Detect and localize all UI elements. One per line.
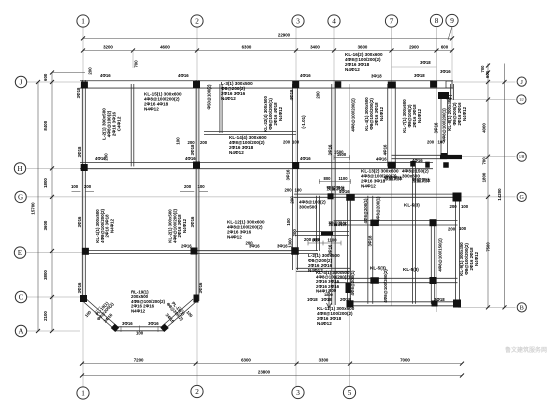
svg-text:200: 200 [292, 229, 297, 237]
column 1/E [82, 248, 89, 255]
svg-text:600: 600 [441, 45, 449, 50]
svg-text:200: 200 [290, 196, 295, 204]
beam on axis 4 [332, 84, 335, 305]
column 3/E [291, 247, 299, 255]
svg-text:100: 100 [295, 188, 303, 193]
column x433 lower [430, 277, 437, 284]
beam KL on axis H [80, 163, 433, 169]
svg-text:200: 200 [283, 140, 291, 145]
grid line axis 9 vertical [451, 28, 453, 101]
svg-text:6300: 6300 [242, 45, 252, 50]
grid line axis 1/H horizontal [447, 156, 516, 158]
axis bubble J left [15, 76, 26, 87]
svg-text:700: 700 [482, 157, 487, 165]
column 1/J [81, 82, 88, 89]
axis bubble 8 top [430, 14, 442, 26]
column 4/J [335, 81, 342, 88]
rebar rotated 4Φ18 [289, 89, 294, 100]
grid line axis H horizontal [27, 167, 81, 169]
svg-text:3Φ16: 3Φ16 [286, 169, 291, 180]
svg-text:3Φ18: 3Φ18 [77, 146, 82, 157]
dim 1500 at 1/H [334, 152, 350, 160]
grid line axis B horizontal [458, 306, 516, 308]
stair dim 800/1100 upper [319, 176, 350, 184]
grid line axis 1/J (M) horizontal [446, 99, 516, 101]
beam between 1-2 [131, 84, 134, 166]
column x433 mid [430, 219, 437, 226]
dim 600 right top [485, 70, 490, 78]
svg-text:1800: 1800 [482, 172, 487, 182]
svg-text:100: 100 [136, 331, 144, 336]
column 8/G [453, 193, 462, 202]
svg-text:3Φ16: 3Φ16 [328, 244, 333, 255]
beam label rotated KL-32(4) [263, 96, 283, 132]
axis bubble 5 bottom [343, 386, 355, 398]
bay window bottom beam [115, 327, 165, 331]
svg-text:1Φ18: 1Φ18 [307, 297, 318, 302]
beam stair landing [296, 232, 349, 236]
svg-text:100: 100 [71, 184, 79, 189]
rebar rotated 3Φ16 x334 [328, 144, 333, 155]
rebar rotated 4Φ16 x391 [383, 144, 388, 155]
axis bubble C left [15, 291, 26, 302]
svg-text:100: 100 [198, 184, 206, 189]
svg-text:6300: 6300 [241, 358, 251, 363]
dim 700 right top [480, 65, 485, 73]
grid line axis 5 vertical [349, 84, 351, 387]
svg-text:200: 200 [427, 140, 435, 145]
svg-text:7200: 7200 [134, 358, 144, 363]
svg-text:3Φ18: 3Φ18 [371, 74, 382, 79]
column 8/J [430, 81, 437, 88]
svg-text:200: 200 [448, 227, 456, 232]
column x373 mid [370, 220, 379, 227]
svg-text:J: J [20, 79, 23, 86]
grid line axis A horizontal [27, 330, 81, 332]
dimension left inner [43, 71, 54, 334]
beam on axis 1/H [392, 155, 448, 158]
svg-text:1800: 1800 [43, 178, 48, 188]
beam label rotated KL-4(1) [364, 97, 384, 131]
svg-text:1/J: 1/J [519, 98, 524, 102]
svg-text:3300: 3300 [319, 358, 329, 363]
axis bubble 4 top [328, 15, 340, 27]
svg-text:KL-5(3): KL-5(3) [404, 203, 420, 208]
svg-text:2Φ16: 2Φ16 [181, 244, 192, 249]
stirrup label x350 a [363, 198, 368, 223]
dim rotated 4Φ16 x439 [434, 122, 439, 133]
axis 9 leader [448, 27, 452, 40]
svg-text:7000: 7000 [400, 358, 410, 363]
beam on axis G [294, 194, 460, 197]
beam label rotated KL-1(1) [95, 208, 115, 243]
grid line axis E horizontal [27, 252, 84, 254]
column 7/J [388, 82, 396, 89]
svg-text:鲁文建筑服务网: 鲁文建筑服务网 [505, 346, 547, 354]
svg-text:200: 200 [104, 153, 109, 161]
svg-text:C: C [19, 294, 24, 301]
tick extension line [132, 51, 134, 69]
svg-text:100: 100 [292, 140, 300, 145]
svg-text:15700: 15700 [31, 202, 36, 215]
svg-text:4Φ8@100/200(1): 4Φ8@100/200(1) [442, 108, 447, 142]
svg-text:100: 100 [286, 218, 291, 226]
level label (-1.01) [301, 115, 306, 129]
svg-text:200: 200 [88, 67, 93, 75]
bay diag tick right [180, 307, 186, 313]
stirrup label x456 [438, 238, 443, 272]
svg-text:3Φ16: 3Φ16 [328, 144, 333, 155]
bay rebar 3Φ16 right diag [165, 312, 176, 324]
svg-text:100: 100 [461, 204, 469, 209]
svg-text:200: 200 [246, 241, 254, 246]
axis bubble 9 top [446, 14, 458, 26]
svg-text:KL-5(3): KL-5(3) [403, 267, 419, 272]
beam between 2-3 upper [204, 131, 296, 134]
dim rotated 200 col1 [88, 67, 93, 75]
svg-text:5: 5 [348, 389, 352, 397]
grid line top right short [392, 66, 437, 68]
svg-text:23800: 23800 [258, 370, 271, 375]
svg-text:3Φ16: 3Φ16 [77, 216, 82, 227]
stirrup rotated x373 low [383, 269, 388, 303]
axis bubble H left [14, 163, 25, 174]
column outline 9/J [446, 81, 452, 88]
column 3/J [292, 81, 299, 88]
svg-text:100: 100 [176, 137, 181, 145]
svg-text:预留洞体: 预留洞体 [329, 221, 348, 228]
svg-text:7500: 7500 [485, 242, 490, 252]
svg-text:3Φ16: 3Φ16 [77, 282, 82, 293]
dimension bottom spans [80, 358, 464, 366]
beam row lower right [334, 278, 458, 282]
svg-text:200: 200 [188, 140, 196, 145]
bay dim 100 right [185, 310, 194, 319]
bay dim 100 left [84, 309, 93, 318]
svg-text:800: 800 [312, 237, 320, 242]
axis bubble 1/H right [517, 152, 526, 161]
bay window bend column left [111, 324, 119, 332]
svg-text:3600: 3600 [358, 45, 368, 50]
svg-text:3Φ16: 3Φ16 [148, 321, 159, 326]
svg-text:3Φ18: 3Φ18 [414, 73, 425, 78]
beam x433 [431, 223, 434, 304]
column wing bottom [441, 153, 448, 158]
axis bubble 1 top [77, 15, 89, 27]
svg-text:Φ50@100(2): Φ50@100(2) [207, 84, 212, 109]
dim rotated 200 b [104, 153, 109, 161]
grid line axis 1 vertical [82, 28, 84, 387]
svg-text:8400: 8400 [43, 120, 48, 130]
svg-text:600: 600 [485, 70, 490, 78]
beam on axis 3 [293, 84, 298, 270]
svg-text:200: 200 [285, 188, 293, 193]
dimension top total 22900 [81, 32, 454, 40]
grid line axis 8 vertical [436, 28, 438, 313]
svg-text:4Φ16: 4Φ16 [412, 158, 423, 163]
beam label rotated KL-9(1) [459, 242, 479, 276]
svg-text:1300: 1300 [288, 238, 293, 248]
bay diag label left [92, 298, 114, 321]
svg-text:3Φ16: 3Φ16 [122, 321, 133, 326]
svg-text:3Φ18: 3Φ18 [76, 87, 81, 98]
column grid5 mid [346, 283, 351, 293]
svg-text:4Φ16: 4Φ16 [178, 73, 189, 78]
left dim top edge line [52, 72, 85, 74]
column 7/H [388, 162, 396, 169]
dimension left outer 15700 [31, 80, 40, 333]
axis bubble 3 top [292, 15, 304, 27]
rebar rotated 3Φ16 x83c [77, 282, 82, 293]
svg-text:3800: 3800 [43, 270, 48, 280]
svg-text:600: 600 [43, 73, 48, 81]
svg-text:200: 200 [84, 184, 92, 189]
dim rotated 200 stairheight [292, 229, 297, 237]
rebar rotated 3Φ18 x83a [76, 87, 81, 98]
rebar rotated 3Φ16 x197b [190, 216, 195, 227]
column 1/H [81, 164, 88, 171]
grid line axis J inside [452, 81, 516, 83]
svg-text:4Φ16: 4Φ16 [383, 144, 388, 155]
axis bubble E left [14, 247, 25, 258]
axis bubble G left [15, 191, 26, 202]
svg-text:A: A [19, 328, 24, 335]
wall line x221 [220, 84, 222, 133]
svg-text:4Φ8@200(1): 4Φ8@200(1) [363, 198, 368, 223]
svg-text:800: 800 [324, 176, 332, 181]
beam label rotated KL-7(1) [402, 99, 422, 133]
svg-text:3: 3 [296, 389, 300, 397]
svg-text:(-1.01): (-1.01) [301, 115, 306, 129]
svg-text:4Φ16: 4Φ16 [376, 156, 387, 161]
column 5/B [347, 300, 354, 307]
beam on axis E [83, 250, 318, 253]
dim rotated 700 x133 [134, 60, 139, 68]
stirrup label grid5 top [351, 98, 356, 132]
svg-text:2: 2 [195, 388, 199, 396]
beam on axis 1 [82, 80, 85, 301]
axis bubble 2 top [191, 15, 203, 27]
svg-text:3Φ18: 3Φ18 [368, 235, 373, 246]
bay rebar 3Φ16 left diag [103, 312, 114, 324]
rebar rotated 3Φ18 x83d [77, 146, 82, 157]
dim line G pair right [180, 190, 208, 192]
svg-text:200: 200 [184, 184, 192, 189]
dimension right inner [482, 64, 490, 310]
dim rotated 7500 inner [485, 242, 490, 252]
column x446/H [443, 162, 449, 168]
axis bubble J right [517, 77, 526, 86]
beam below E stub [296, 268, 350, 271]
beam on axis 2 [196, 80, 199, 301]
svg-text:H: H [18, 166, 23, 173]
grid line axis 7 vertical [391, 28, 393, 307]
beam label rotated KL-8(1) [447, 97, 467, 131]
rebar rotated 3Φ16 x334b [328, 244, 333, 255]
svg-text:2Φ18: 2Φ18 [340, 297, 351, 302]
dimension bottom total 23800 [80, 370, 464, 378]
column x413/H [410, 161, 416, 167]
rebar rotated 3Φ16 grid3H [286, 169, 291, 180]
beam label rotated KL-2(1) [167, 208, 187, 243]
shear wall 1/H [440, 155, 462, 159]
svg-text:G: G [520, 195, 525, 201]
svg-text:22900: 22900 [278, 32, 291, 37]
axis bubble G right [517, 192, 526, 201]
axis bubble B right [517, 303, 526, 312]
dimension right outer 14200 [497, 64, 507, 310]
stirrup label x204 [207, 84, 212, 109]
svg-text:100: 100 [438, 140, 446, 145]
svg-text:1Φ18: 1Φ18 [321, 297, 332, 302]
dim line G pair left [72, 190, 95, 192]
svg-text:700: 700 [134, 60, 139, 68]
dim rotated 200 x296 [290, 196, 295, 204]
svg-text:1/H: 1/H [519, 155, 525, 159]
beam axis 9 stub [451, 84, 454, 100]
bay window corner column left [80, 295, 87, 302]
dim rotated 200 col3top [316, 91, 321, 99]
wall chunk stair landing [321, 231, 333, 235]
svg-text:200: 200 [316, 91, 321, 99]
grid line axis E right stub [197, 250, 296, 252]
stair dim 800/1100 lower [308, 237, 341, 245]
svg-text:8: 8 [435, 17, 439, 25]
beam stair x318 [317, 196, 320, 251]
column x427/H [425, 162, 430, 168]
beam on axis 5 lower [347, 196, 350, 304]
level mark stair [327, 292, 332, 308]
svg-text:4Φ16: 4Φ16 [100, 73, 111, 78]
svg-text:3Φ16: 3Φ16 [434, 122, 439, 133]
column x434/B [432, 301, 438, 307]
beam label rotated L-2(1) [102, 108, 122, 140]
rebar rotated 3Φ18 x373 [368, 235, 373, 246]
svg-text:100: 100 [459, 226, 467, 231]
beam on axis 1/J stub [448, 96, 453, 99]
svg-text:3200: 3200 [103, 45, 113, 50]
svg-text:3600: 3600 [43, 220, 48, 230]
bay chord tick c [157, 326, 159, 332]
column 8/B [453, 300, 461, 308]
grid line axis 3 vertical [295, 28, 297, 387]
svg-text:G: G [18, 194, 23, 201]
svg-text:E: E [18, 250, 22, 257]
dim rotated 100 a [176, 137, 181, 145]
svg-text:4Φ16: 4Φ16 [300, 156, 311, 161]
svg-text:预留洞体: 预留洞体 [384, 175, 403, 182]
svg-text:1100: 1100 [338, 176, 348, 181]
bay window corner column right [194, 295, 199, 303]
svg-text:4600: 4600 [160, 45, 170, 50]
axis bubble 3 bottom [292, 386, 304, 398]
svg-text:200: 200 [450, 204, 458, 209]
column 2/H [193, 162, 200, 169]
grid line axis J horizontal [27, 81, 80, 83]
svg-text:4: 4 [332, 18, 336, 26]
svg-text:3Φ18: 3Φ18 [434, 297, 445, 302]
beam on axis B [350, 302, 460, 306]
beam x439 right wing [441, 92, 447, 157]
stirrup label x377 [375, 196, 380, 221]
svg-text:3: 3 [296, 18, 300, 26]
svg-text:4Φ8@200(1): 4Φ8@200(1) [375, 196, 380, 221]
beam x414 [413, 166, 416, 303]
svg-text:200: 200 [200, 140, 208, 145]
rebar rotated 3Φ16 x83b [77, 216, 82, 227]
grid line axis C horizontal [27, 296, 84, 298]
svg-text:1500: 1500 [337, 152, 347, 157]
grid line axis 4 vertical [333, 28, 335, 307]
axis bubble 1/J right [517, 95, 526, 104]
bay chord tick a [139, 326, 141, 333]
bay window right diagonal beam [162, 299, 196, 330]
svg-text:3Φ16: 3Φ16 [198, 282, 203, 293]
grid line axis 2 vertical [196, 28, 198, 386]
svg-text:4000: 4000 [482, 123, 487, 133]
rebar rotated 3Φ16 x197c [198, 282, 203, 293]
svg-text:4Φ8@100/150(2): 4Φ8@100/150(2) [438, 238, 443, 272]
svg-text:预留洞体: 预留洞体 [412, 177, 431, 184]
beam KL on axis J [80, 81, 453, 88]
column 2/E [191, 248, 198, 255]
svg-text:B: B [520, 306, 524, 312]
axis bubble 2 bottom [191, 385, 203, 397]
svg-text:7: 7 [390, 18, 394, 26]
svg-text:3Φ16: 3Φ16 [440, 69, 451, 74]
svg-text:2900: 2900 [409, 45, 419, 50]
beam x456 [456, 196, 460, 304]
bay diag label right [165, 298, 187, 321]
column x373 lower [370, 277, 379, 284]
grid line axis G horizontal [27, 196, 516, 198]
axis bubble 1 bottom [77, 387, 89, 399]
column 4/G [328, 193, 334, 199]
svg-text:3Φ16: 3Φ16 [190, 216, 195, 227]
svg-text:2: 2 [195, 18, 199, 26]
column 5/G [346, 194, 355, 201]
svg-text:4Φ18: 4Φ18 [289, 89, 294, 100]
svg-text:4Φ16: 4Φ16 [300, 73, 311, 78]
svg-text:1: 1 [81, 390, 85, 398]
svg-text:9: 9 [450, 17, 454, 25]
svg-text:1: 1 [81, 18, 85, 26]
column wing top [438, 92, 449, 99]
bay window bend column right [160, 324, 168, 332]
svg-text:14200: 14200 [497, 188, 502, 201]
bay window left diagonal beam [84, 299, 118, 329]
beam x373 [368, 196, 373, 304]
svg-text:4Φ16: 4Φ16 [185, 156, 196, 161]
dim rotated 1300 [288, 238, 293, 248]
bay diag tick left [95, 307, 101, 313]
svg-text:4Φ8@100/200(2): 4Φ8@100/200(2) [383, 269, 388, 303]
svg-text:3400: 3400 [310, 45, 320, 50]
svg-text:2100: 2100 [43, 311, 48, 321]
column 2/J [193, 81, 200, 88]
dimension top spans [81, 45, 454, 53]
svg-text:3Φ18: 3Φ18 [420, 60, 431, 65]
axis bubble 7 top [385, 15, 397, 27]
bay chord tick b [120, 326, 122, 332]
svg-text:4Φ8@200(1): 4Φ8@200(1) [350, 270, 355, 295]
svg-text:4Φ8@100/200(2): 4Φ8@100/200(2) [351, 98, 356, 132]
svg-text:4Φ16: 4Φ16 [339, 189, 350, 194]
column 3/H [292, 162, 299, 169]
dim rotated 100 stair [286, 218, 291, 226]
svg-text:1100: 1100 [327, 237, 337, 242]
stirrup label wing [442, 108, 447, 142]
